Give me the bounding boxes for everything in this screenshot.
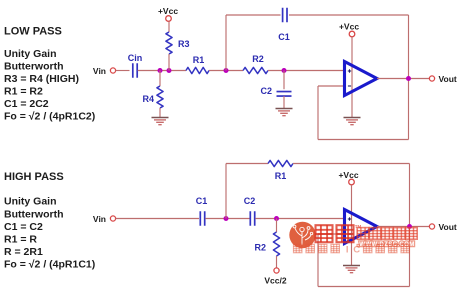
- svg-text:R1: R1: [275, 171, 287, 181]
- power Vcc/2 terminal: [274, 268, 279, 273]
- wire feedback bottom: [318, 139, 409, 141]
- capacitor C1: [282, 8, 284, 23]
- wire Vin to C1 (hp): [116, 218, 199, 220]
- wire feedback left down: [317, 86, 319, 140]
- node A junction: [158, 68, 163, 73]
- svg-text:R1 = R: R1 = R: [4, 234, 37, 246]
- capacitor Cin: [132, 63, 134, 78]
- ground (C2): [276, 108, 293, 110]
- wire Vcc through op-amp to ground (hp): [351, 185, 353, 266]
- wire op-amp output (hp): [377, 226, 430, 228]
- node Vout (low pass): [429, 76, 434, 81]
- resistor R1 (hp): [268, 160, 293, 166]
- wire feedback bottom (hp): [318, 286, 410, 288]
- svg-text:Fo = √2 / (4pR1C2): Fo = √2 / (4pR1C2): [4, 111, 95, 123]
- wire Vin to Cin: [116, 70, 130, 72]
- watermark characters 电子市场网: [357, 228, 369, 240]
- svg-text:C2: C2: [260, 86, 272, 96]
- wire inverting input (hp): [318, 233, 345, 235]
- svg-text:Butterworth: Butterworth: [4, 61, 64, 73]
- wire C2 to ground: [283, 96, 285, 109]
- wire C1 to C2 (hp): [205, 218, 249, 220]
- node F junction: [224, 216, 229, 221]
- node E junction (output): [406, 76, 411, 81]
- svg-text:C1: C1: [278, 32, 290, 42]
- svg-text:C1 = 2C2: C1 = 2C2: [4, 98, 49, 110]
- wire node D to C2: [283, 71, 285, 90]
- wire R4 to ground: [159, 108, 161, 118]
- svg-text:R3: R3: [178, 39, 190, 49]
- svg-text:Fo = √2 / (4pR1C1): Fo = √2 / (4pR1C1): [4, 259, 95, 271]
- svg-text:R3 = R4 (HIGH): R3 = R4 (HIGH): [4, 73, 79, 85]
- watermark slogan row: [294, 244, 302, 252]
- svg-text:C2: C2: [244, 196, 256, 206]
- svg-text:Vin: Vin: [93, 66, 106, 76]
- node B junction: [167, 68, 172, 73]
- wire node G to R2: [276, 219, 278, 233]
- wire R2 to op-amp: [268, 70, 345, 72]
- op-amp U2: [345, 210, 378, 244]
- svg-text:LOW PASS: LOW PASS: [4, 26, 62, 38]
- wire R2 to Vcc/2: [276, 256, 278, 268]
- wire R1 left segment: [226, 163, 268, 165]
- wire node F up to R1: [225, 164, 227, 219]
- svg-text:C: C: [353, 245, 360, 256]
- svg-text:Unity Gain: Unity Gain: [4, 48, 57, 60]
- svg-text:Vcc/2: Vcc/2: [264, 276, 286, 286]
- svg-text:Cin: Cin: [128, 53, 143, 63]
- svg-text:R4: R4: [142, 94, 154, 104]
- svg-text:I: I: [346, 245, 349, 256]
- node H junction (output hp): [407, 224, 412, 229]
- ground (op-amp U1): [344, 117, 361, 119]
- svg-text:C1: C1: [196, 196, 208, 206]
- node C junction: [224, 68, 229, 73]
- ground (R4): [152, 117, 169, 119]
- svg-text:Vout: Vout: [439, 222, 457, 232]
- resistor R2: [243, 67, 268, 73]
- wire R1 right segment: [293, 163, 410, 165]
- wire inverting input: [318, 85, 345, 87]
- svg-text:+Vcc: +Vcc: [338, 170, 358, 180]
- wire C1 right segment: [289, 14, 409, 16]
- node D junction: [282, 68, 287, 73]
- node G junction: [274, 216, 279, 221]
- svg-text:HIGH PASS: HIGH PASS: [4, 171, 64, 183]
- op-amp U1: [345, 62, 378, 96]
- svg-text:R2: R2: [254, 243, 266, 253]
- wire op-amp output: [377, 78, 430, 80]
- resistor R1: [186, 67, 209, 73]
- wire node C up to C1: [225, 15, 227, 71]
- ground (op-amp U2): [343, 265, 360, 267]
- svg-text:Vout: Vout: [439, 74, 457, 84]
- wire Vcc to R3: [168, 21, 170, 32]
- wire feedback right up (hp): [409, 227, 411, 287]
- svg-text:Butterworth: Butterworth: [4, 209, 64, 221]
- wire R3 to node B: [168, 54, 170, 71]
- wire Vcc through op-amp to ground: [351, 37, 353, 118]
- wire C2 to op-amp (hp): [255, 218, 345, 220]
- resistor R2 (hp): [273, 232, 279, 256]
- wire R1 down to output node: [409, 164, 411, 227]
- watermark logo disc: [289, 222, 315, 248]
- capacitor C1 (hp): [199, 211, 201, 226]
- node Vout (high pass): [429, 224, 434, 229]
- wire R1 to R2: [209, 70, 243, 72]
- capacitor C2: [277, 91, 292, 93]
- resistor R3: [166, 32, 172, 54]
- capacitor C2 (hp): [249, 211, 251, 226]
- wire Cin to node A: [138, 70, 186, 72]
- svg-text:R2: R2: [252, 54, 264, 64]
- svg-text:R = 2R1: R = 2R1: [4, 246, 43, 258]
- svg-text:R1: R1: [193, 55, 205, 65]
- svg-text:Unity Gain: Unity Gain: [4, 196, 57, 208]
- watermark big characters 维库: [316, 225, 333, 242]
- wire node A to R4: [159, 71, 161, 87]
- resistor R4: [157, 86, 163, 108]
- wire feedback right up: [408, 79, 410, 140]
- wire C1 down to output node: [408, 15, 410, 79]
- wire C1 left segment: [226, 14, 281, 16]
- svg-text:R1 = R2: R1 = R2: [4, 86, 43, 98]
- svg-text:C1 = C2: C1 = C2: [4, 221, 43, 233]
- svg-text:+Vcc: +Vcc: [158, 6, 178, 16]
- svg-text:Vin: Vin: [93, 214, 106, 224]
- wire feedback left down (hp): [317, 234, 319, 287]
- svg-text:+Vcc: +Vcc: [339, 22, 359, 32]
